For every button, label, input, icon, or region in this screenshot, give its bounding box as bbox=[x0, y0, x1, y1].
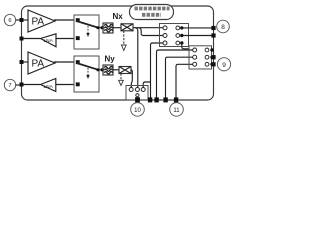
main line chain1 to matrix row1 bbox=[133, 27, 163, 29]
matrix2 row1 contacts bbox=[193, 48, 197, 52]
control unit text line2 bbox=[142, 13, 161, 17]
switch1 pole terminal bottom bbox=[76, 36, 80, 40]
wire filter Ny to coupler2 bbox=[113, 69, 119, 71]
wire to PA2 input bbox=[24, 61, 29, 63]
wire switch to LNA1 in bbox=[56, 38, 74, 40]
switch1 actuation dashed arrow bbox=[87, 26, 89, 33]
connector output stub bbox=[136, 97, 138, 100]
svg-text:6: 6 bbox=[8, 18, 11, 24]
bottom terminal V5 bbox=[154, 97, 158, 102]
antenna terminal 9 square bbox=[211, 62, 215, 66]
matrix2 row2 contacts bbox=[193, 55, 197, 59]
wire branch to connector contact 3 bbox=[143, 82, 150, 87]
switch2 common contact bbox=[97, 68, 100, 71]
svg-text:8: 8 bbox=[221, 24, 225, 31]
switch2 actuation dashed arrow bbox=[87, 68, 89, 75]
filter Ny box bbox=[103, 65, 113, 75]
branch to coupler port routing V0 bbox=[135, 28, 138, 88]
switch2 pole terminal bottom bbox=[76, 82, 80, 86]
switch2 pole terminal top bbox=[76, 60, 80, 64]
coupler 2 bbox=[119, 67, 131, 74]
svg-text:11: 11 bbox=[173, 108, 180, 114]
port 10 circle bbox=[131, 103, 145, 117]
filter Nx input dot bbox=[101, 26, 104, 29]
connector box bbox=[126, 86, 148, 101]
control unit oval bbox=[130, 5, 174, 20]
switch1 arm bbox=[77, 21, 99, 28]
svg-text:Ny: Ny bbox=[105, 54, 116, 63]
amplifier PA2 bbox=[28, 52, 55, 74]
filter Ny waves bbox=[104, 66, 112, 68]
svg-text:LNA: LNA bbox=[44, 38, 54, 44]
wire matrix1 row2 to terminal bbox=[184, 35, 212, 37]
switch box 2 bbox=[74, 56, 99, 92]
switch1 pole terminal top bbox=[76, 18, 80, 22]
amplifier LNA2 bbox=[41, 79, 56, 92]
wire PA2 out to switch2 bbox=[54, 61, 74, 63]
matrix2 row3 contacts bbox=[193, 62, 197, 66]
filter Ny input dot bbox=[101, 68, 104, 71]
bottom terminal row3 line bbox=[148, 97, 152, 102]
wire to PA1 input bbox=[24, 19, 29, 21]
terminal square row2 bbox=[211, 33, 215, 37]
amplifier LNA1 bbox=[41, 34, 57, 47]
wire matrix1 row1 to antenna terminal bbox=[184, 27, 212, 29]
svg-text:PA: PA bbox=[32, 16, 45, 27]
switch matrix box 1 bbox=[160, 24, 189, 47]
wire PA1 out to switch bbox=[54, 19, 74, 21]
svg-text:7: 7 bbox=[8, 83, 11, 89]
V7 line matrix2 row3 to bottom port bbox=[176, 64, 193, 99]
svg-text:PA: PA bbox=[32, 58, 45, 69]
connector contact 2 bbox=[135, 88, 139, 92]
branch L1 to matrix1 row2 bbox=[138, 28, 163, 36]
wire switch2 to filter Ny bbox=[99, 69, 103, 71]
terminal square LNA2 output bbox=[20, 83, 24, 87]
switch2 arm bbox=[77, 63, 99, 70]
filter Nx box bbox=[103, 23, 113, 33]
coupler2 coupled port arrow bbox=[120, 74, 122, 81]
wire LNA2 out to border bbox=[24, 84, 41, 86]
filter Nx waves bbox=[104, 24, 112, 26]
svg-text:Nx: Nx bbox=[113, 12, 124, 21]
V5 line matrix2 row1 to bottom port bbox=[157, 50, 194, 100]
svg-text:9: 9 bbox=[222, 62, 226, 69]
wire switch1 to filter Nx bbox=[99, 27, 103, 29]
connector contact 1 bbox=[129, 88, 133, 92]
terminal square matrix2 row2 bbox=[211, 55, 215, 59]
module outline bbox=[22, 6, 214, 100]
wire switch2 to LNA2 in bbox=[56, 84, 74, 86]
matrix1 row2 contacts bbox=[163, 34, 167, 38]
svg-text:LNA: LNA bbox=[44, 84, 54, 90]
wire port7 to border bbox=[16, 84, 22, 86]
port 8 circle bbox=[217, 20, 230, 33]
terminal square PA1 input bbox=[20, 18, 24, 22]
antenna terminal 8 square bbox=[211, 26, 215, 30]
wire matrix1 row3 down to bottom port bbox=[151, 43, 164, 100]
matrix1 row3 link down to matrix2 bbox=[182, 45, 189, 49]
amplifier PA1 bbox=[28, 10, 55, 32]
coupler 1 bbox=[121, 24, 133, 31]
switch1 common contact bbox=[97, 26, 100, 29]
bottom terminal V7 port 11 bbox=[174, 97, 178, 102]
control unit text line1 bbox=[135, 7, 170, 11]
matrix1 row1 contacts bbox=[163, 26, 167, 30]
connector output contact bbox=[136, 94, 139, 97]
wire port6 to border bbox=[16, 19, 22, 21]
port 9 circle bbox=[217, 58, 230, 71]
port 11 circle bbox=[170, 103, 184, 117]
terminal square PA2 input bbox=[20, 60, 24, 64]
V6 line matrix2 row2 to bottom port bbox=[166, 57, 194, 99]
connector contact 3 bbox=[141, 88, 145, 92]
switch matrix box 2 bbox=[189, 46, 212, 69]
port 7 circle bbox=[4, 79, 15, 90]
port 10 terminal square bbox=[135, 97, 140, 102]
coupler2 output down to connector V3 bbox=[131, 70, 132, 88]
bottom terminal V6 bbox=[163, 97, 167, 102]
port 6 circle bbox=[4, 14, 15, 25]
switch box 1 bbox=[74, 15, 99, 49]
terminal square LNA1 output bbox=[20, 37, 24, 41]
coupler1 coupled port arrow bbox=[123, 31, 125, 45]
wire filter Nx to coupler1 bbox=[113, 27, 121, 29]
matrix1 row3 contacts bbox=[163, 41, 167, 45]
svg-text:10: 10 bbox=[134, 108, 141, 114]
wire LNA1 out to border bbox=[24, 38, 41, 40]
